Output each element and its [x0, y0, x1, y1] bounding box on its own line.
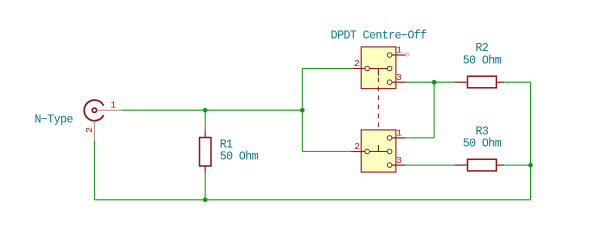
switch SW1 unit A pin 2 stub: [352, 68, 365, 70]
resistor R2 body: [468, 76, 497, 88]
svg-text:2: 2: [354, 58, 360, 69]
switch SW1 unit B pin 3 contact circle: [387, 163, 392, 168]
svg-text:2: 2: [354, 141, 360, 152]
svg-text:3: 3: [396, 155, 402, 166]
switch SW1 unit A centre-off contact circle: [387, 66, 392, 71]
wire: vertical between upper and lower switch feeds: [301, 69, 303, 152]
svg-text:1: 1: [396, 45, 402, 56]
junction: upper pin3 wire / lower pin1 vertical: [432, 80, 437, 85]
svg-text:N−Type: N−Type: [35, 114, 74, 127]
wire: left vertical from connector pin2 down to bottom rail: [93, 140, 95, 200]
svg-text:50 Ohm: 50 Ohm: [463, 54, 502, 67]
switch SW1 unit B body: [361, 130, 396, 172]
switch SW1 unit A pin 1 stub: [392, 54, 406, 56]
wire: to upper switch pin2: [302, 68, 352, 70]
switch SW1 unit B centre-off contact circle: [387, 149, 392, 154]
connector J1 N-Type coax body arc: [84, 100, 103, 121]
switch SW1 unit A pin 3 stub: [392, 81, 406, 83]
svg-text:DPDT Centre−Off: DPDT Centre−Off: [331, 29, 428, 42]
svg-text:3: 3: [396, 72, 402, 83]
wire: bottom rail: [94, 199, 530, 201]
svg-text:R1: R1: [220, 138, 233, 151]
switch SW1 inter-unit dashed link: [377, 78, 379, 146]
junction: main wire / R1 top: [203, 108, 208, 113]
wire: R2 right to right vertical: [503, 81, 530, 83]
wire: vertical from junction down to lower switch pin1 level: [433, 82, 435, 138]
resistor R3 right pin: [496, 164, 504, 166]
switch SW1 unit B common contact circle: [365, 149, 370, 154]
switch SW1 unit A lever: [370, 68, 388, 70]
resistor R1 body: [200, 138, 212, 167]
switch SW1 unit A pin 1 contact circle: [387, 53, 392, 58]
wire: R1 bottom vertical: [204, 173, 206, 200]
resistor R1 top pin: [204, 131, 206, 138]
switch SW1 unit A body: [361, 47, 396, 89]
switch SW1 unit B pin 1 stub: [392, 137, 406, 139]
svg-text:2: 2: [84, 127, 95, 133]
junction: bottom rail / R1 bottom: [203, 198, 208, 203]
switch SW1 unit A pin 1 unconnected marker: [406, 53, 409, 56]
wire: right vertical rail: [530, 82, 532, 200]
wire: R3 right to right vertical: [503, 164, 530, 166]
wire: to lower switch pin2: [302, 150, 351, 152]
switch SW1 unit A pin 3 contact circle: [387, 80, 392, 85]
switch SW1 unit B pin 3 stub: [392, 164, 406, 166]
resistor R2 right pin: [496, 81, 504, 83]
switch SW1 unit B link tick: [377, 145, 379, 152]
resistor R1 bottom pin: [204, 166, 206, 173]
svg-text:1: 1: [396, 128, 402, 139]
switch SW1 unit A link tick: [377, 69, 379, 76]
svg-text:50 Ohm: 50 Ohm: [220, 151, 259, 164]
switch SW1 unit B pin 2 stub: [351, 151, 365, 153]
wire: lower switch pin3 to R3 left: [406, 164, 455, 166]
connector J1 centre pin circle: [92, 108, 96, 112]
svg-text:1: 1: [110, 100, 116, 111]
wire: R1 top vertical: [204, 110, 206, 131]
connector J1 pin 2 line: [93, 121, 95, 140]
junction: right vertical / R3 right: [528, 163, 533, 168]
switch SW1 unit B pin 1 contact circle: [387, 136, 392, 141]
connector J1 pin 1 line: [97, 109, 122, 111]
resistor R3 left pin: [454, 164, 467, 166]
wire: main horizontal from connector J1 pin1 to switch column: [122, 109, 302, 111]
svg-text:R3: R3: [475, 125, 488, 138]
resistor R2 left pin: [454, 81, 467, 83]
junction: main wire / switch feed vertical: [300, 108, 305, 113]
svg-text:50 Ohm: 50 Ohm: [463, 138, 502, 151]
switch SW1 unit B lever: [370, 151, 388, 153]
switch SW1 unit A common contact circle: [365, 66, 370, 71]
wire: lower switch pin1 horizontal: [406, 137, 434, 139]
resistor R3 body: [468, 159, 497, 171]
wire: upper switch pin3 to R2 left: [406, 81, 455, 83]
svg-text:R2: R2: [475, 42, 488, 55]
